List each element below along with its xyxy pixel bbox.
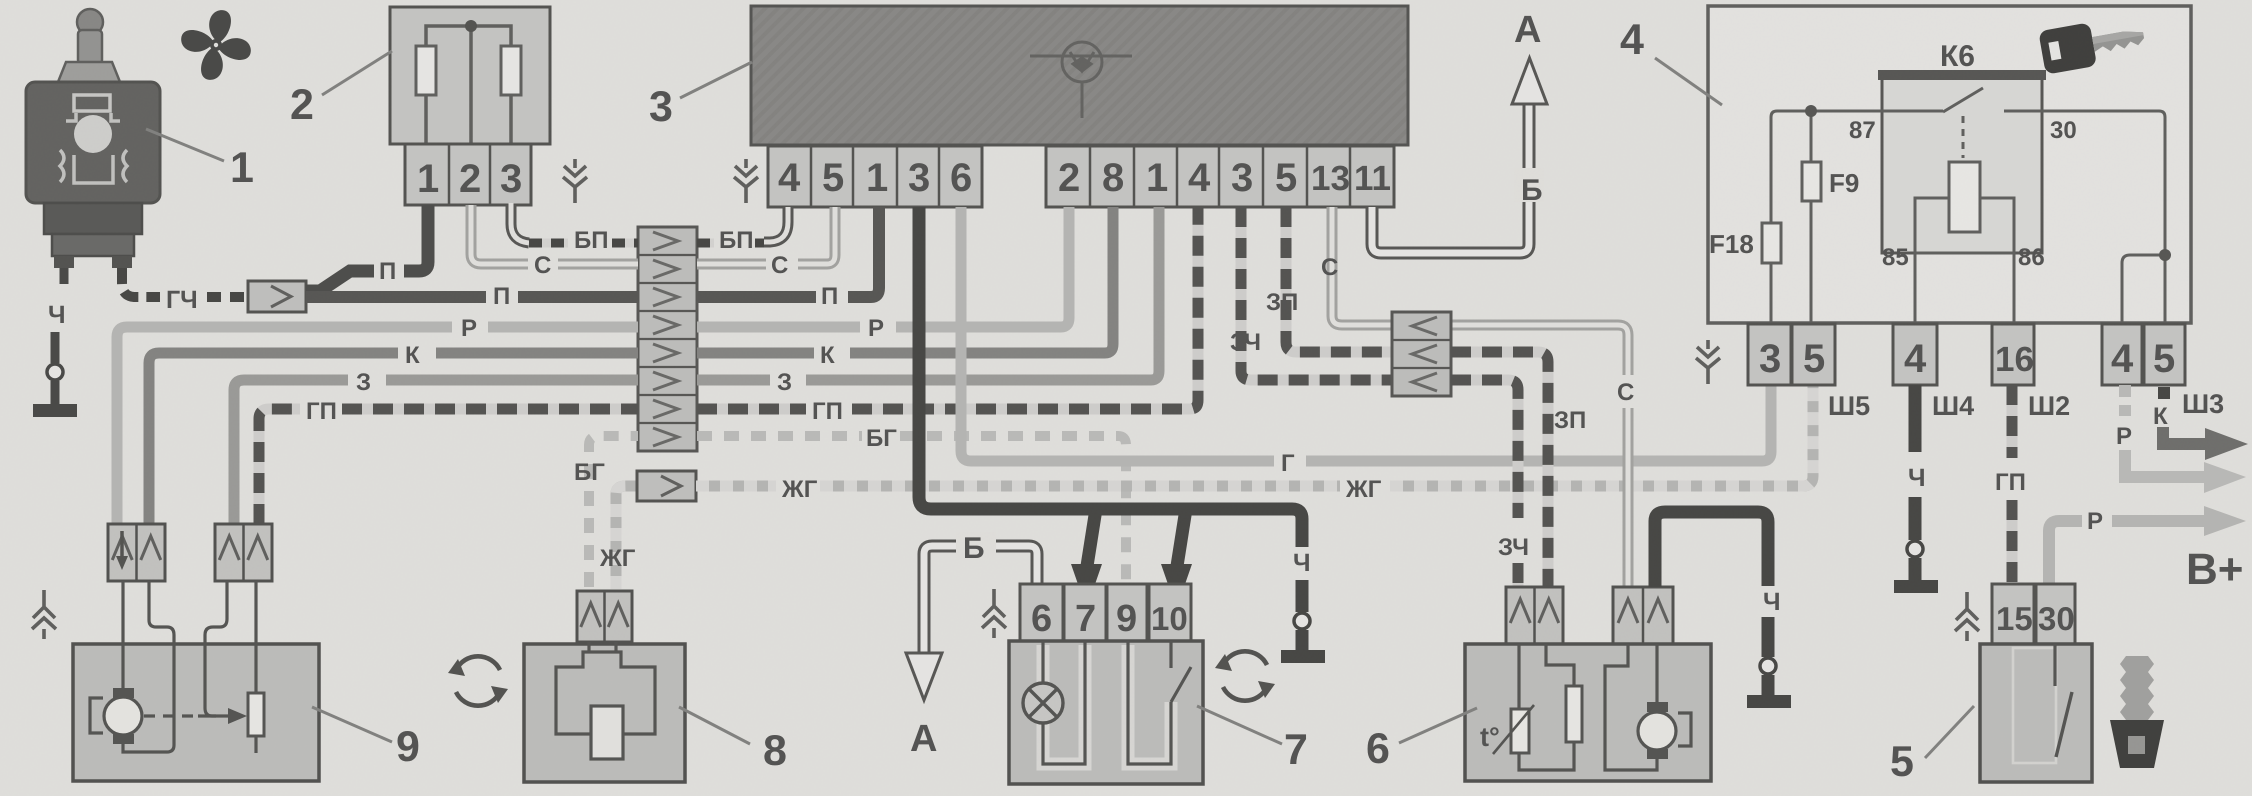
- label 3 pointer: [680, 62, 752, 98]
- wire БП left: [529, 239, 638, 248]
- component 2: resistor block: [390, 7, 550, 144]
- wire К from Ш3 pin5 to off-page arrow: [2158, 387, 2170, 399]
- wire БП right: [697, 239, 768, 248]
- comp3 left pin group 4 5 1 3 6: [768, 146, 982, 207]
- wire К comp9 to column: [149, 353, 638, 524]
- component 4: mounting block with relay K6: [1708, 6, 2191, 323]
- wire comp3 pin4 hook (white cased): [764, 207, 788, 242]
- connector X9-2 (2-pin): [215, 524, 272, 581]
- wire ЗЧ connector to comp6 (hatched): [1451, 380, 1518, 587]
- mechanical link dashes + arrow: [144, 714, 198, 717]
- wire ЗП connector to comp6 (hatched): [1451, 352, 1548, 587]
- fan icon: [171, 0, 260, 89]
- rotation icon comp8: [448, 656, 508, 705]
- funnel branch into pin7: [1087, 509, 1096, 566]
- ground symbol comp7: [982, 589, 1006, 638]
- wire П bus left: [306, 291, 638, 303]
- label 4 pointer: [1655, 58, 1722, 105]
- comp9 internal wiring: [123, 581, 256, 753]
- wire ЖГ from comp8 connector up: [616, 486, 637, 589]
- label 9 pointer: [312, 707, 392, 742]
- connector X6-2 (2-pin): [1613, 587, 1673, 644]
- resistor R9: [248, 693, 264, 736]
- label 8 pointer: [679, 707, 750, 744]
- arrow А (down): [906, 653, 942, 700]
- key/screw icon: [2110, 656, 2164, 768]
- chassis ground bar comp6: [1747, 695, 1791, 708]
- relay K6 box: [1882, 75, 2042, 253]
- relay coil: [1915, 198, 2014, 253]
- label 2 pointer: [322, 51, 392, 95]
- wire Г comp3 pin6 to Ш5 pin3: [961, 207, 1771, 461]
- wire БП hook at comp2 pin3 (white cased): [511, 203, 529, 243]
- component 2 pins 1 2 3: [405, 144, 531, 205]
- inline connector circle on Ч: [47, 364, 63, 380]
- wire ЗП comp3 pin5 to connector (hatched): [1286, 207, 1392, 352]
- label 5 pointer: [1925, 706, 1974, 758]
- wire Р column to comp3 pin2: [697, 207, 1069, 327]
- funnel branch into pin10: [1177, 509, 1186, 566]
- connector ГЧ: [248, 281, 306, 312]
- wire Б (white cased) comp3 pin11 to arrow А top: [1372, 100, 1529, 253]
- motor M9: [113, 688, 134, 698]
- connector X8 (2-pin): [577, 591, 632, 642]
- fuse F18: [1762, 223, 1781, 263]
- connector Ш4 pin 4: [1893, 324, 1937, 385]
- connector 3-cell: [1392, 312, 1451, 396]
- wire ГЧ dashes right: [207, 292, 246, 302]
- chassis ground bar (comp 1): [33, 404, 77, 417]
- fuse F9: [1802, 162, 1821, 201]
- wire Р from comp5 pin30 to off-page arrow: [2049, 521, 2206, 584]
- resistor R6: [1566, 686, 1582, 742]
- wire БГ column to comp7 pin9: [697, 436, 1126, 584]
- thermistor t: [1511, 709, 1529, 753]
- comp8 internals: [589, 642, 616, 652]
- ground symbol comp9: [32, 590, 56, 639]
- wire З comp9 to column: [234, 380, 638, 524]
- label 7 pointer: [1197, 706, 1282, 744]
- comp5 internals: [2013, 648, 2056, 763]
- component 6: sensor/pump unit: [1465, 644, 1711, 781]
- connector Ш5 pins 3 5: [1748, 324, 1835, 385]
- inline connector circle: [1294, 613, 1310, 629]
- wire ГЧ dashes: [122, 268, 160, 297]
- motor M6: [1647, 702, 1668, 712]
- wire Ч from component 1 to ground: [55, 268, 64, 404]
- wire Р from Ш3 pin4 to off-page arrow: [2119, 385, 2131, 416]
- wire Ч comp6 to ground: [1655, 512, 1768, 587]
- wire С column to comp3 pin5: [697, 207, 835, 264]
- label 1 pointer: [146, 129, 224, 161]
- wire ГП column to comp3 right pin4 (hatched): [697, 207, 1198, 409]
- component 9: fan motor unit with resistor: [73, 644, 319, 781]
- ground symbol left of pin 4: [734, 159, 758, 203]
- ground symbol below box 4: [1696, 340, 1720, 384]
- wire БГ left branch down to comp8: [589, 436, 638, 587]
- label 6 pointer: [1399, 708, 1477, 743]
- transistor symbol inside U3: [1030, 42, 1132, 118]
- ground symbol comp5: [1955, 592, 1979, 641]
- comp6 internal wiring: [1519, 644, 1657, 770]
- wire Б (white cased) comp7 pin6 to arrow А: [924, 546, 1037, 652]
- wire 87 rail with junction: [1771, 111, 2165, 324]
- wire Ч from Ш4 to ground: [1909, 385, 1922, 452]
- wire З column to comp3 right pin1: [697, 207, 1159, 380]
- central 8-way connector column: [638, 227, 697, 451]
- component 5: ignition switch: [1992, 584, 2075, 644]
- connector БГ/ЖГ small: [637, 471, 696, 501]
- wire ЖГ bus to Ш5 pin5: [696, 385, 1813, 486]
- comp7 internal circuit: [1043, 645, 1171, 764]
- wire С comp2 pin2 to column: [471, 205, 638, 264]
- indicator lamp: [1023, 683, 1063, 723]
- relay contact 87-30: [1882, 88, 2042, 158]
- component 1: pump/motor unit: [26, 9, 160, 268]
- wire К column to comp3 pin8: [697, 207, 1113, 353]
- component 3: electronic control unit (dark box): [751, 6, 1408, 145]
- connector X9-1 (2-pin): [108, 524, 165, 581]
- chassis ground bar: [1281, 650, 1325, 663]
- wire ГП comp9 to column (hatched): [259, 409, 638, 524]
- wire П column to comp3 pin1: [697, 207, 879, 297]
- connector Ш3 pins 4 5: [2102, 324, 2185, 385]
- component 7: control switch with indicator lamp: [1020, 584, 1191, 641]
- wire Р comp9 to column: [117, 327, 638, 524]
- rotation icon comp7: [1215, 651, 1275, 700]
- wire ЗЧ comp3 right pin3 to connector (hatched): [1241, 207, 1392, 380]
- ground symbol right of comp 2: [563, 159, 587, 203]
- wire ГП from Ш2 to comp5 pin15 (hatched): [2007, 385, 2018, 458]
- chassis ground bar Ш4: [1894, 580, 1938, 593]
- wire С comp3 pin13 to comp6: [1332, 207, 1628, 587]
- comp3 right pin group 2 8 1 4 3 5 13 11: [1046, 146, 1394, 207]
- connector Ш2 pin 16: [1992, 324, 2034, 385]
- wire Ч black bus comp3 pin3 down to comp7 pins: [919, 207, 1302, 547]
- connector X6-1 (2-pin): [1506, 587, 1563, 644]
- key icon: [2038, 13, 2147, 74]
- wire П branch ГЧ connector to comp2 pin1: [306, 205, 428, 291]
- arrow А (up): [1512, 58, 1547, 104]
- component 8: heater tap actuator: [524, 644, 685, 782]
